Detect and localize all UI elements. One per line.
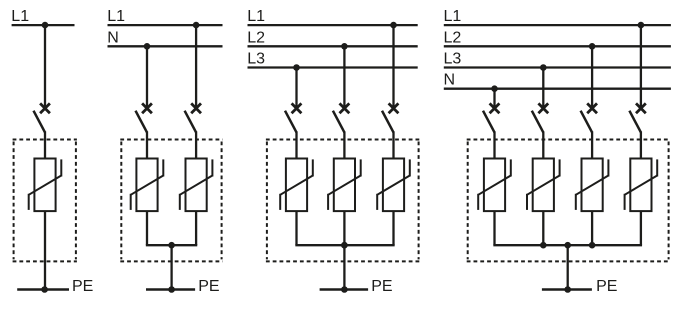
wire common join bar (circuit 2) (146, 244, 197, 246)
varistor RV3.3 (377, 159, 410, 212)
varistor RV2.2 (180, 159, 213, 212)
wire N tap down to disconnector F4.1 (493, 89, 495, 109)
wire varistor RV3.2 to common join (343, 211, 345, 245)
wire L1 tap down to disconnector F4.4 (640, 25, 642, 108)
wire varistor RV4.2 to common join (542, 211, 544, 245)
wire L3 bus (circuit 4) (444, 66, 671, 68)
thermal disconnector F4.1 (X mark + blade) (483, 103, 499, 132)
junction dot on L1 at tap 4.4 (638, 22, 645, 29)
thermal disconnector F3.3 (X mark + blade) (382, 103, 398, 132)
wire varistor RV4.3 to common join (591, 211, 593, 245)
wire varistor RV3.3 to common join (392, 211, 394, 245)
junction dot on L1 at tap 1.1 (42, 22, 49, 29)
wire L2 bus (circuit 3) (248, 45, 418, 47)
wire disconnector F2.1 to varistor RV2.1 (146, 131, 148, 159)
svg-text:PE: PE (198, 278, 219, 295)
wire N tap down to disconnector F2.1 (146, 46, 148, 108)
wire common join bar (circuit 3) (295, 244, 394, 246)
junction dot on L3 at tap 4.2 (540, 64, 547, 71)
SPD enclosure (dashed outline, circuit 1) (13, 140, 77, 262)
thermal disconnector F3.1 (X mark + blade) (285, 103, 301, 132)
svg-text:L1: L1 (444, 8, 462, 25)
wire common join bar (circuit 4) (493, 244, 642, 246)
svg-text:N: N (444, 72, 456, 89)
thermal disconnector F2.2 (X mark + blade) (185, 103, 201, 132)
varistor RV4.4 (625, 159, 658, 212)
wire L1 tap down to disconnector F1.1 (44, 25, 46, 108)
wire PE bus (circuit 1) (17, 288, 69, 291)
svg-text:L3: L3 (444, 51, 462, 68)
junction dot join bar to PE drop (circuit 4) (564, 242, 571, 249)
wire PE bus (circuit 3) (320, 288, 369, 291)
wire varistor RV3.1 to common join (295, 211, 297, 245)
wire varistor RV2.2 to common join (195, 211, 197, 245)
svg-text:N: N (107, 29, 119, 46)
varistor RV1.1 (29, 159, 62, 212)
wire join bar down to PE (circuit 3) (343, 245, 345, 289)
junction dot on PE bus (circuit 3) (341, 286, 348, 293)
wire varistor RV1.1 to PE node (44, 211, 46, 289)
wire L1 bus (circuit 4) (444, 24, 671, 26)
varistor RV4.1 (478, 159, 511, 212)
svg-text:L1: L1 (11, 8, 29, 25)
junction dot on L1 at tap 2.2 (193, 22, 200, 29)
junction dot on join bar at x=344.4 (341, 242, 348, 249)
wire join bar down to PE (circuit 2) (170, 245, 172, 289)
thermal disconnector F3.2 (X mark + blade) (333, 103, 349, 132)
wire L3 tap down to disconnector F4.2 (542, 68, 544, 109)
wire L3 bus (circuit 3) (248, 66, 418, 68)
svg-text:L1: L1 (247, 8, 265, 25)
thermal disconnector F1.1 (X mark + blade) (34, 103, 50, 132)
wire N bus (circuit 2) (108, 45, 223, 47)
junction dot join bar to PE drop (circuit 3) (341, 242, 348, 249)
varistor RV4.2 (527, 159, 560, 212)
wire L2 bus (circuit 4) (444, 45, 671, 47)
svg-text:PE: PE (72, 278, 93, 295)
SPD enclosure (dashed outline, circuit 3) (266, 140, 420, 262)
junction dot on join bar at x=543.3 (540, 242, 547, 249)
wire L1 bus (circuit 3) (248, 24, 418, 26)
wire disconnector F2.2 to varistor RV2.2 (195, 131, 197, 159)
wire disconnector F1.1 to varistor RV1.1 (44, 131, 46, 159)
wire varistor RV4.1 to common join (493, 211, 495, 245)
varistor RV3.1 (280, 159, 313, 212)
wire L3 tap down to disconnector F3.1 (295, 68, 297, 109)
wire varistor RV4.4 to common join (640, 211, 642, 245)
wire disconnector F4.4 to varistor RV4.4 (640, 131, 642, 159)
wire varistor RV2.1 to common join (146, 211, 148, 245)
junction dot join bar to PE drop (circuit 2) (168, 242, 175, 249)
svg-text:PE: PE (596, 278, 617, 295)
junction dot on PE bus (circuit 1) (41, 286, 48, 293)
junction dot on PE bus (circuit 2) (168, 286, 175, 293)
junction dot on join bar at x=592.1 (589, 242, 596, 249)
thermal disconnector F4.2 (X mark + blade) (532, 103, 548, 132)
svg-text:L3: L3 (247, 51, 265, 68)
junction dot on L3 at tap 3.1 (293, 64, 300, 71)
svg-text:L2: L2 (247, 29, 265, 46)
thermal disconnector F2.1 (X mark + blade) (136, 103, 152, 132)
wire PE bus (circuit 2) (146, 288, 195, 291)
junction dot on L2 at tap 4.3 (589, 43, 596, 50)
wire L1 tap down to disconnector F3.3 (392, 25, 394, 108)
wire PE bus (circuit 4) (542, 288, 592, 291)
svg-text:L2: L2 (444, 29, 462, 46)
wire disconnector F3.3 to varistor RV3.3 (392, 131, 394, 159)
wire L2 tap down to disconnector F3.2 (343, 46, 345, 108)
svg-text:L1: L1 (107, 8, 125, 25)
wire L1 bus (circuit 2) (108, 24, 223, 26)
wire join bar down to PE (circuit 4) (567, 245, 569, 289)
varistor RV2.1 (131, 159, 164, 212)
svg-text:PE: PE (371, 278, 392, 295)
wire L1 tap down to disconnector F2.2 (195, 25, 197, 108)
wire disconnector F4.2 to varistor RV4.2 (542, 131, 544, 159)
junction dot on L1 at tap 3.3 (390, 22, 397, 29)
wire disconnector F3.1 to varistor RV3.1 (295, 131, 297, 159)
SPD enclosure (dashed outline, circuit 4) (467, 140, 670, 262)
wire N bus (circuit 4) (444, 88, 671, 90)
wire disconnector F4.1 to varistor RV4.1 (493, 131, 495, 159)
SPD enclosure (dashed outline, circuit 2) (120, 140, 222, 262)
junction dot on N at tap 4.1 (491, 85, 498, 92)
wire disconnector F3.2 to varistor RV3.2 (343, 131, 345, 159)
junction dot on PE bus (circuit 4) (564, 286, 571, 293)
wire disconnector F4.3 to varistor RV4.3 (591, 131, 593, 159)
wire L1 bus (circuit 1) (12, 24, 75, 26)
thermal disconnector F4.4 (X mark + blade) (629, 103, 645, 132)
varistor RV4.3 (576, 159, 609, 212)
junction dot on L2 at tap 3.2 (341, 43, 348, 50)
junction dot on N at tap 2.1 (144, 43, 151, 50)
varistor RV3.2 (328, 159, 361, 212)
thermal disconnector F4.3 (X mark + blade) (581, 103, 597, 132)
wire L2 tap down to disconnector F4.3 (591, 46, 593, 108)
